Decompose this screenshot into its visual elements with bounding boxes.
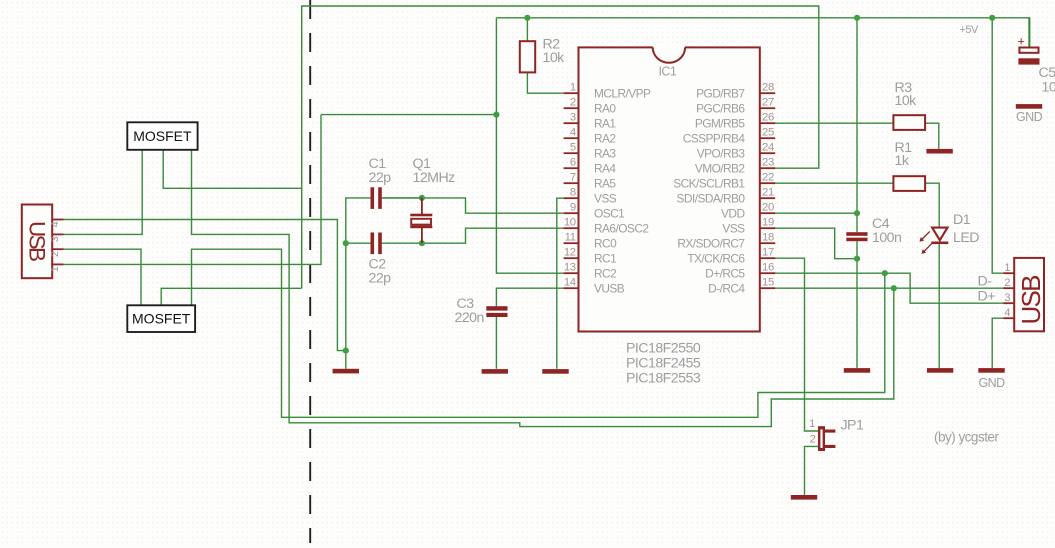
wire +5V rail to USB2 pin1: [992, 18, 1003, 273]
wire to ground: [345, 351, 347, 369]
svg-text:RA0: RA0: [594, 101, 616, 115]
svg-text:+5V: +5V: [960, 24, 979, 36]
pin 20 stub: [760, 212, 775, 214]
crystal Q1 plates: [410, 214, 432, 217]
junction gnd left: [343, 348, 349, 354]
svg-text:220n: 220n: [455, 310, 484, 326]
transistor block MOSFET1: [127, 122, 197, 150]
USB left pin 4 stub: [52, 219, 63, 221]
capacitor C3 plates: [486, 306, 507, 310]
svg-text:2: 2: [1004, 277, 1010, 289]
wire pin 17 to JP1: [775, 258, 818, 431]
svg-text:PIC18F2550: PIC18F2550: [626, 341, 701, 357]
wire C1 to crystal: [382, 197, 422, 199]
svg-text:10k: 10k: [543, 50, 566, 66]
svg-text:RA4: RA4: [594, 161, 616, 175]
svg-text:D-: D-: [978, 274, 993, 290]
wire pin 22 to R1: [775, 182, 893, 184]
svg-text:RA1: RA1: [594, 116, 616, 130]
ground VSS: [542, 369, 568, 374]
svg-text:RA3: RA3: [594, 146, 616, 160]
pin 27 stub: [760, 107, 775, 109]
wire VDD pin 20: [775, 212, 857, 214]
svg-text:12MHz: 12MHz: [413, 170, 456, 186]
svg-text:GND: GND: [1016, 110, 1043, 124]
svg-text:VUSB: VUSB: [594, 281, 625, 295]
pin 25 stub: [760, 137, 775, 139]
svg-text:D+/RC5: D+/RC5: [705, 266, 745, 280]
wire R2 top: [526, 18, 528, 41]
svg-text:RA5: RA5: [594, 176, 616, 190]
svg-text:VSS: VSS: [594, 191, 617, 205]
svg-text:24: 24: [762, 142, 774, 154]
wire VBUS row to riser: [321, 114, 496, 116]
wire VUSB pin 14 to C3: [496, 288, 563, 306]
pin 13 stub: [564, 272, 579, 274]
svg-text:10: 10: [564, 217, 576, 229]
pin 5 stub: [564, 152, 579, 154]
wire USB1 pin3 to MOSFET1: [64, 150, 143, 235]
wire MOSFET2 gate branch: [161, 288, 302, 305]
pin 21 stub: [760, 197, 775, 199]
svg-text:VPO/RB3: VPO/RB3: [697, 146, 746, 160]
junction VSS C4: [854, 256, 860, 262]
svg-text:13: 13: [564, 262, 576, 274]
svg-text:25: 25: [762, 127, 774, 139]
wire JP1 pin2 to ground: [805, 446, 819, 495]
svg-text:MOSFET: MOSFET: [133, 128, 192, 144]
svg-text:RA6/OSC2: RA6/OSC2: [594, 221, 649, 235]
wire RB2 gate net top run: [302, 6, 819, 288]
svg-text:MOSFET: MOSFET: [132, 311, 191, 327]
wire R1 to LED: [925, 183, 939, 227]
wire riser to RC2 pin 13: [496, 18, 563, 273]
wire to C2: [346, 242, 371, 244]
svg-text:1: 1: [809, 418, 815, 430]
junction VDD pin20: [854, 210, 860, 216]
svg-text:RA2: RA2: [594, 131, 616, 145]
svg-text:PGD/RB7: PGD/RB7: [696, 86, 745, 100]
wire VSS pin 8 to ground: [557, 198, 564, 369]
svg-text:USB: USB: [25, 221, 50, 262]
LED D1 cathode bar: [931, 242, 948, 245]
ground crystal: [333, 369, 359, 374]
svg-text:(by) ycgster: (by) ycgster: [934, 430, 999, 445]
capacitor C1 plates: [371, 187, 375, 209]
pin 12 stub: [564, 257, 579, 259]
svg-text:4: 4: [570, 127, 576, 139]
USB right pin 4 stub: [1003, 317, 1014, 319]
op-amp IC1 PIC18F2550 body: [579, 47, 760, 331]
svg-text:JP1: JP1: [841, 418, 864, 434]
wire MOSFET1 gate branch: [163, 150, 302, 189]
pin 17 stub: [760, 257, 775, 259]
svg-text:PGM/RB5: PGM/RB5: [695, 116, 746, 130]
USB right pin 3 stub: [1003, 302, 1014, 304]
svg-text:IC1: IC1: [659, 65, 677, 79]
LED D1 emission arrows: [920, 231, 932, 254]
svg-text:PGC/RB6: PGC/RB6: [696, 101, 745, 115]
svg-text:SCK/SCL/RB1: SCK/SCL/RB1: [673, 176, 745, 190]
svg-text:22: 22: [762, 172, 774, 184]
wire VSS pin 19 jog: [775, 228, 857, 259]
junction VBUS row: [493, 112, 499, 118]
wire gnd riser to C1: [346, 198, 371, 351]
pin 24 stub: [760, 152, 775, 154]
wire D- long run to MOSFET1: [192, 150, 894, 427]
svg-text:22p: 22p: [369, 170, 392, 186]
svg-text:SDI/SDA/RB0: SDI/SDA/RB0: [677, 191, 746, 205]
svg-text:2: 2: [570, 97, 576, 109]
svg-text:6: 6: [570, 157, 576, 169]
wire D+ long run to MOSFET2: [192, 249, 885, 417]
junction C2 left: [343, 240, 349, 246]
wire R2 to MCLR pin 1: [527, 72, 563, 93]
wire USB2 pin4 to ground: [992, 318, 1003, 368]
LED D1 triangle: [932, 228, 947, 241]
svg-text:GND: GND: [979, 376, 1006, 390]
svg-text:5: 5: [570, 142, 576, 154]
capacitor C2 plates: [371, 233, 375, 255]
ground USB2: [978, 368, 1004, 373]
pin 23 stub: [760, 167, 775, 169]
junction R2 top: [524, 15, 530, 21]
svg-text:9: 9: [570, 202, 576, 214]
USB right pin 1 stub: [1003, 272, 1014, 274]
USB right pin 2 stub: [1003, 287, 1014, 289]
wire C4 bottom to ground: [856, 241, 858, 368]
connector USB right: [1014, 258, 1044, 331]
svg-text:14: 14: [564, 277, 576, 289]
capacitor C4 plates: [846, 232, 867, 236]
svg-text:RX/SDO/RC7: RX/SDO/RC7: [677, 236, 745, 250]
junction D+: [882, 270, 888, 276]
svg-text:4: 4: [1004, 307, 1010, 319]
junction +5V rail: [989, 15, 995, 21]
pin 18 stub: [760, 242, 775, 244]
svg-text:2: 2: [49, 251, 61, 257]
svg-text:100n: 100n: [872, 230, 901, 246]
wire R3 to ground: [925, 123, 939, 149]
wire USB1 pin1 VBUS row: [64, 115, 322, 265]
pin 7 stub: [564, 182, 579, 184]
junction D-: [891, 285, 897, 291]
pin 14 stub: [564, 287, 579, 289]
svg-text:12: 12: [564, 247, 576, 259]
resistor R3 body: [893, 115, 925, 130]
pin 8 stub: [564, 197, 579, 199]
svg-text:+: +: [1018, 35, 1025, 49]
wire D+ pin 16 to USB2 pin3: [775, 273, 1003, 303]
svg-text:15: 15: [762, 277, 774, 289]
pin 16 stub: [760, 272, 775, 274]
pin 1 stub: [564, 92, 579, 94]
svg-text:OSC1: OSC1: [594, 206, 625, 220]
svg-text:3: 3: [1004, 292, 1010, 304]
wire to C5: [1028, 18, 1030, 48]
ground D1: [927, 368, 953, 373]
svg-text:VSS: VSS: [722, 221, 745, 235]
svg-text:18: 18: [762, 232, 774, 244]
svg-text:USB: USB: [1016, 275, 1046, 325]
svg-text:LED: LED: [953, 230, 979, 246]
ground C5: [1016, 104, 1042, 109]
pin 9 stub: [564, 212, 579, 214]
svg-text:D-/RC4: D-/RC4: [708, 281, 745, 295]
svg-text:26: 26: [762, 112, 774, 124]
connector USB left: [22, 205, 52, 279]
svg-text:TX/CK/RC6: TX/CK/RC6: [687, 251, 745, 265]
svg-text:28: 28: [762, 82, 774, 94]
transistor block MOSFET2: [127, 305, 195, 332]
wire USB1 pin4 gnd run: [64, 220, 346, 351]
svg-text:23: 23: [762, 157, 774, 169]
pin 22 stub: [760, 182, 775, 184]
svg-text:27: 27: [762, 97, 774, 109]
jumper JP1 body: [818, 426, 825, 451]
junction crystal bottom: [419, 240, 425, 246]
pin 11 stub: [564, 242, 579, 244]
svg-text:VDD: VDD: [721, 206, 745, 220]
pin 28 stub: [760, 92, 775, 94]
svg-text:1k: 1k: [895, 153, 910, 169]
IC1 notch: [653, 45, 685, 60]
svg-text:10k: 10k: [895, 93, 918, 109]
svg-text:21: 21: [762, 187, 774, 199]
capacitor C5 plates: [1019, 48, 1038, 53]
svg-text:MCLR/VPP: MCLR/VPP: [594, 86, 651, 100]
svg-text:19: 19: [762, 217, 774, 229]
wire D- pin 15 to USB2 pin2: [775, 287, 1003, 289]
svg-text:17: 17: [762, 247, 774, 259]
wire OSC2 pin 10 row: [382, 228, 564, 243]
svg-text:7: 7: [570, 172, 576, 184]
pin 4 stub: [564, 137, 579, 139]
pin 6 stub: [564, 167, 579, 169]
svg-text:RC0: RC0: [594, 236, 617, 250]
svg-text:22p: 22p: [369, 271, 392, 287]
svg-text:1: 1: [570, 82, 576, 94]
wire LED to ground: [938, 244, 940, 369]
svg-text:D1: D1: [953, 212, 971, 228]
ground R3: [926, 149, 952, 154]
svg-text:RC2: RC2: [594, 266, 617, 280]
ground C4: [844, 368, 870, 373]
pin 2 stub: [564, 107, 579, 109]
svg-text:11: 11: [565, 232, 576, 244]
svg-text:CSSPP/RB4: CSSPP/RB4: [683, 131, 746, 145]
wire OSC1 pin 9 row: [382, 198, 564, 213]
svg-text:D+: D+: [978, 289, 996, 305]
pin 10 stub: [564, 227, 579, 229]
junction crystal top: [419, 195, 425, 201]
ground C3: [482, 369, 508, 374]
ground JP1: [791, 495, 817, 500]
pin 15 stub: [760, 287, 775, 289]
wire pin 26 to R3: [775, 122, 893, 124]
wire C3 to ground: [495, 317, 497, 369]
svg-text:3: 3: [570, 112, 576, 124]
svg-text:1: 1: [49, 266, 61, 272]
svg-text:10p: 10p: [1042, 80, 1055, 96]
svg-text:RC1: RC1: [594, 251, 617, 265]
wire +5V top rail: [496, 18, 1029, 48]
svg-text:PIC18F2455: PIC18F2455: [626, 356, 701, 372]
resistor R1 body: [893, 176, 925, 191]
svg-text:4: 4: [49, 221, 61, 227]
svg-text:8: 8: [570, 187, 576, 199]
junction VDD rail: [854, 15, 860, 21]
crystal Q1 stubs: [421, 198, 423, 214]
dashed boundary line: [309, 0, 311, 543]
svg-text:VMO/RB2: VMO/RB2: [695, 161, 746, 175]
wire USB1 pin2 to MOSFET2: [64, 249, 142, 305]
USB left pin 2 stub: [52, 248, 63, 250]
pin 19 stub: [760, 227, 775, 229]
pin 26 stub: [760, 122, 775, 124]
svg-text:PIC18F2553: PIC18F2553: [626, 371, 701, 387]
wire VDD drop to C4: [856, 18, 858, 232]
pin 3 stub: [564, 122, 579, 124]
resistor R2 body: [520, 41, 535, 72]
svg-text:1: 1: [1004, 262, 1010, 274]
svg-text:16: 16: [762, 262, 774, 274]
svg-text:2: 2: [810, 433, 816, 445]
crystal Q1 body: [411, 219, 431, 225]
USB left pin 3 stub: [52, 233, 63, 235]
svg-text:20: 20: [762, 202, 774, 214]
jumper JP1 pin stubs: [825, 430, 835, 433]
svg-text:3: 3: [49, 236, 61, 242]
USB left pin 1 stub: [52, 263, 63, 265]
